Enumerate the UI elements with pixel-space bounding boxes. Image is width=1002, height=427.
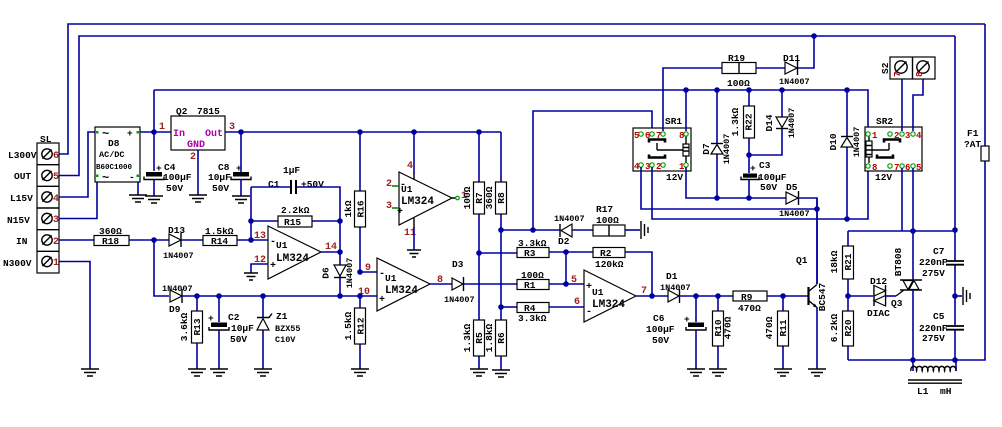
- wire terminal1 down to ground: [59, 262, 90, 370]
- wire pin9: [360, 271, 377, 273]
- wire terminal3 to D8 ac2: [59, 182, 97, 219]
- svg-text:R13: R13: [192, 318, 203, 335]
- node D14 top: [779, 87, 785, 93]
- svg-text:C5: C5: [933, 311, 945, 322]
- diode D9: [162, 284, 193, 315]
- resistor R22: [730, 90, 755, 173]
- svg-text:120kΩ: 120kΩ: [595, 259, 624, 270]
- wire SR1 pin3 run: [652, 167, 868, 219]
- node Z1 top: [260, 293, 266, 299]
- ground under Q1 emitter: [808, 369, 826, 376]
- capacitor C3: [741, 160, 787, 198]
- resistor R4: [517, 303, 584, 325]
- svg-text:GND: GND: [187, 140, 205, 151]
- svg-text:2: 2: [190, 152, 196, 163]
- wire S2 pin7 to SR2 pin3: [901, 79, 903, 131]
- svg-text:OUT: OUT: [14, 171, 31, 182]
- ground under R6: [492, 370, 510, 377]
- diode D14: [749, 90, 797, 155]
- svg-text:R17: R17: [596, 204, 613, 215]
- svg-text:U1: U1: [401, 184, 413, 195]
- svg-text:+: +: [750, 163, 756, 174]
- svg-text:360Ω: 360Ω: [484, 186, 495, 209]
- resistor R10: [713, 296, 734, 369]
- svg-text:1N4007: 1N4007: [345, 258, 355, 289]
- svg-text:6.2kΩ: 6.2kΩ: [829, 313, 840, 342]
- svg-text:4: 4: [634, 162, 640, 172]
- svg-text:3: 3: [386, 201, 392, 212]
- svg-text:C6: C6: [653, 313, 665, 324]
- svg-text:+: +: [208, 313, 214, 324]
- ground under R5: [470, 369, 488, 376]
- svg-text:5: 5: [634, 131, 639, 141]
- svg-text:N300V: N300V: [3, 258, 32, 269]
- ground under C8: [232, 196, 250, 203]
- resistor R14: [203, 226, 268, 247]
- svg-text:R22: R22: [744, 113, 755, 130]
- node C3 bottom: [746, 195, 752, 201]
- svg-text:U1: U1: [385, 273, 397, 284]
- relay supply bus y90: [154, 90, 868, 131]
- wire R4 left: [501, 306, 517, 308]
- wire SR2 pin5 down to triac: [912, 168, 914, 280]
- svg-text:1: 1: [159, 122, 165, 133]
- node R11 top: [780, 293, 786, 299]
- ground under D8: [129, 195, 147, 202]
- resistor R12: [343, 296, 367, 369]
- svg-text:4: 4: [407, 161, 413, 172]
- svg-text:6: 6: [645, 131, 650, 141]
- svg-text:4: 4: [916, 131, 922, 141]
- svg-text:D8: D8: [108, 138, 120, 149]
- connector SL: [3, 134, 59, 273]
- resistor R3: [517, 238, 566, 259]
- ground under R11: [774, 369, 792, 376]
- svg-text:D3: D3: [452, 259, 464, 270]
- node SR1 pin6 riser: [530, 227, 536, 233]
- node R3/R2: [563, 249, 569, 255]
- resistor R20: [829, 296, 854, 360]
- +15V bus from Q2 Out: [225, 131, 501, 133]
- fuse F1: [964, 128, 989, 161]
- svg-text:1kΩ: 1kΩ: [343, 200, 354, 217]
- ground op2 pin11: [407, 250, 421, 257]
- svg-text:R15: R15: [284, 217, 301, 228]
- svg-text:R9: R9: [741, 292, 753, 303]
- resistor R1: [517, 270, 584, 291]
- wire SR1 pin1 to snubber rail: [686, 167, 786, 198]
- svg-text:3: 3: [645, 162, 650, 172]
- svg-text:C7: C7: [933, 246, 945, 257]
- svg-text:1µF: 1µF: [283, 165, 300, 176]
- relay SR1: [633, 116, 691, 183]
- svg-text:100µF: 100µF: [163, 172, 192, 183]
- resistor R9: [733, 291, 808, 314]
- node C7 top: [952, 227, 958, 233]
- svg-text:7: 7: [893, 72, 903, 77]
- wire node to DIAC: [848, 295, 873, 297]
- node C7/C5 midpoint: [952, 293, 958, 299]
- svg-text:+: +: [127, 128, 133, 139]
- node D11 to bus2: [811, 33, 817, 39]
- svg-text:R6: R6: [496, 332, 507, 344]
- svg-text:1N4007: 1N4007: [660, 283, 691, 293]
- ground under C4: [145, 196, 163, 203]
- svg-text:50V: 50V: [230, 334, 247, 345]
- svg-text:12V: 12V: [666, 172, 683, 183]
- diode D13: [163, 225, 203, 261]
- node op1 output: [337, 249, 343, 255]
- svg-text:1N4007: 1N4007: [779, 209, 810, 219]
- svg-text:SR2: SR2: [876, 116, 893, 127]
- node R12 top: [357, 293, 363, 299]
- svg-text:BZX55: BZX55: [275, 324, 301, 334]
- wire C8 leads: [240, 132, 242, 196]
- svg-text:Out: Out: [205, 129, 223, 140]
- wire S2 pin8 to SR2 pin4: [913, 79, 923, 131]
- ground under R12: [351, 369, 369, 376]
- resistor R8: [484, 132, 507, 308]
- wire D13 node down to D9: [154, 240, 169, 296]
- node D7 bottom: [714, 195, 720, 201]
- node D6 bottom on pin10 wire: [337, 293, 343, 299]
- node D8/Q2/C4: [151, 129, 157, 135]
- svg-text:8: 8: [915, 72, 925, 77]
- resistor R5: [462, 253, 485, 369]
- wire D9 to op3 pin10: [182, 295, 377, 297]
- wire op1 output: [321, 251, 340, 253]
- svg-text:5: 5: [916, 163, 921, 173]
- svg-text:R1: R1: [524, 280, 536, 291]
- node SR1 pin8 on bus: [683, 87, 689, 93]
- svg-text:L300V: L300V: [8, 150, 37, 161]
- svg-text:1N4007: 1N4007: [444, 295, 475, 305]
- wire terminal4 to D8 ac1: [59, 132, 95, 197]
- svg-text:1N4007: 1N4007: [852, 127, 862, 158]
- svg-text:R21: R21: [843, 253, 854, 270]
- svg-text:L1: L1: [917, 386, 929, 397]
- svg-text:C10V: C10V: [275, 335, 296, 345]
- wire midpoint to ground: [955, 295, 962, 297]
- svg-text:D6: D6: [321, 267, 332, 279]
- wire hysteresis node to pin5: [565, 252, 567, 284]
- svg-text:2.2kΩ: 2.2kΩ: [281, 205, 310, 216]
- bottom rail: [848, 161, 985, 360]
- capacitor C2: [208, 296, 254, 369]
- node R7 top: [476, 129, 482, 135]
- svg-text:5: 5: [571, 275, 577, 286]
- svg-text:275V: 275V: [922, 333, 945, 344]
- wire SR1 pin8 up to relay bus: [685, 90, 687, 131]
- wire terminal5 to second bus: [59, 36, 955, 176]
- svg-text:mH: mH: [940, 386, 952, 397]
- svg-text:8: 8: [679, 131, 684, 141]
- svg-text:C2: C2: [228, 312, 240, 323]
- node pin13: [248, 237, 254, 243]
- node triac top: [910, 228, 916, 234]
- node R8 to comparator wire: [498, 227, 504, 233]
- svg-text:100Ω: 100Ω: [462, 186, 473, 209]
- svg-text:50V: 50V: [166, 183, 183, 194]
- node D13 branch: [151, 237, 157, 243]
- node pin5: [563, 281, 569, 287]
- resistor R21: [829, 231, 854, 296]
- svg-text:2: 2: [53, 237, 59, 248]
- svg-text:50V: 50V: [652, 335, 669, 346]
- svg-text:7815: 7815: [197, 106, 220, 117]
- svg-text:D7: D7: [701, 143, 712, 155]
- svg-text:R2: R2: [600, 248, 612, 259]
- svg-text:L15V: L15V: [10, 193, 33, 204]
- svg-text:Q1: Q1: [796, 255, 808, 266]
- svg-text:LM324: LM324: [276, 253, 309, 265]
- node op3 pin9: [357, 269, 363, 275]
- ground under Z1: [254, 369, 272, 376]
- node C6 top: [693, 293, 699, 299]
- wire R3 left: [479, 252, 517, 254]
- wire R21 top rail: [848, 230, 955, 232]
- capacitor C5: [919, 311, 964, 360]
- ground under R10: [709, 369, 727, 376]
- diode D1: [660, 271, 733, 303]
- svg-text:LM324: LM324: [401, 196, 434, 208]
- capacitor C4: [144, 162, 192, 194]
- inductor L1: [908, 360, 962, 397]
- node pin4: [411, 129, 417, 135]
- node D14/R22 junction: [746, 152, 752, 158]
- svg-text:1N4007: 1N4007: [787, 108, 797, 139]
- capacitor C1: [268, 165, 324, 194]
- svg-text:1N4007: 1N4007: [722, 134, 732, 165]
- wire R2 left: [566, 251, 593, 253]
- wire D8 minus to ground: [137, 182, 139, 195]
- svg-text:2: 2: [386, 179, 392, 190]
- node R13 top: [194, 293, 200, 299]
- node DIAC drive: [845, 293, 851, 299]
- relay SR2: [865, 116, 922, 183]
- resistor R19: [722, 53, 785, 89]
- node D10 bottom: [844, 216, 850, 222]
- resistor R11: [764, 296, 789, 369]
- wire riser to SR1 pin6: [533, 111, 652, 230]
- wire D8 plus to Q2 In: [140, 131, 171, 133]
- svg-text:6: 6: [53, 151, 59, 162]
- op-amp U1d: [571, 270, 647, 322]
- resistor R13: [179, 296, 203, 369]
- diode D5: [779, 182, 817, 284]
- node C8: [238, 129, 244, 135]
- wire C1 feedback loop: [251, 187, 340, 296]
- ground right of R17: [641, 221, 648, 239]
- ground under N300V wire: [81, 369, 99, 376]
- capacitor C7: [919, 36, 964, 326]
- node R4 left: [498, 304, 504, 310]
- connector S2: [880, 57, 935, 79]
- resistor R15: [251, 205, 340, 228]
- wire op2 pin11 to ground: [413, 227, 415, 250]
- svg-text:9: 9: [365, 263, 371, 274]
- wire SR2 pin6 down: [901, 168, 903, 231]
- svg-text:1N4007: 1N4007: [163, 251, 194, 261]
- svg-text:LM324: LM324: [385, 285, 418, 297]
- ground under Q2: [189, 195, 207, 202]
- svg-text:1.3kΩ: 1.3kΩ: [730, 107, 741, 136]
- node R16 top on +15 bus: [357, 129, 363, 135]
- svg-text:275V: 275V: [922, 268, 945, 279]
- svg-text:1: 1: [679, 162, 685, 172]
- svg-text:AC/DC: AC/DC: [99, 150, 125, 160]
- resistor R16: [343, 132, 367, 272]
- diode D7: [701, 90, 732, 198]
- wire IN terminal to R18: [59, 239, 94, 241]
- resistor R6: [484, 308, 507, 370]
- svg-text:?AT: ?AT: [964, 139, 981, 150]
- triac Q3 BT808: [891, 247, 922, 360]
- svg-text:1: 1: [872, 131, 878, 141]
- svg-text:12V: 12V: [875, 172, 892, 183]
- svg-text:Q2: Q2: [176, 106, 188, 117]
- svg-text:D1: D1: [666, 271, 678, 282]
- node R22 top: [746, 87, 752, 93]
- diode D10: [828, 90, 862, 219]
- diac D12: [867, 276, 896, 319]
- transistor Q1 BC547: [796, 198, 828, 369]
- wire op4 output: [636, 295, 668, 297]
- wire R15 left riser: [250, 187, 252, 240]
- svg-text:470Ω: 470Ω: [723, 316, 734, 339]
- svg-text:U1: U1: [276, 240, 288, 251]
- regulator Q2 7815: [159, 106, 235, 163]
- resistor R17: [593, 204, 640, 236]
- svg-text:IN: IN: [16, 236, 28, 247]
- svg-text:470Ω: 470Ω: [738, 303, 761, 314]
- svg-text:2: 2: [894, 131, 899, 141]
- svg-text:~: ~: [102, 171, 109, 185]
- svg-text:R20: R20: [843, 319, 854, 336]
- svg-text:BC547: BC547: [817, 282, 828, 311]
- ground op1 pin12: [244, 273, 258, 280]
- svg-text:6: 6: [905, 163, 910, 173]
- svg-text:U1: U1: [592, 287, 604, 298]
- svg-text:D14: D14: [764, 114, 775, 131]
- node R10 top: [715, 293, 721, 299]
- ground under C2: [210, 369, 228, 376]
- wire top bus down to fuse F1: [984, 24, 986, 146]
- svg-text:13: 13: [254, 231, 266, 242]
- node R15 right: [337, 218, 343, 224]
- node R7 bottom / R3: [476, 250, 482, 256]
- svg-text:100Ω: 100Ω: [596, 215, 619, 226]
- ground under R13: [188, 369, 206, 376]
- svg-text:18kΩ: 18kΩ: [829, 250, 840, 273]
- svg-text:1.3kΩ: 1.3kΩ: [462, 323, 473, 352]
- svg-text:R3: R3: [524, 248, 536, 259]
- node L1 right: [952, 357, 958, 363]
- svg-text:S2: S2: [880, 62, 891, 74]
- svg-text:D5: D5: [786, 182, 798, 193]
- node R15 left top: [248, 218, 254, 224]
- ground right of C5/C7: [963, 287, 970, 305]
- svg-text:50V: 50V: [760, 182, 777, 193]
- op-amp U1c: [358, 258, 443, 311]
- svg-text:3: 3: [53, 215, 59, 226]
- svg-text:2: 2: [656, 162, 661, 172]
- svg-text:+50V: +50V: [301, 179, 324, 190]
- svg-text:R11: R11: [778, 319, 789, 336]
- svg-text:In: In: [173, 129, 185, 140]
- svg-text:DIAC: DIAC: [867, 308, 890, 319]
- svg-text:R18: R18: [102, 236, 119, 247]
- node D10 top: [844, 87, 850, 93]
- svg-text:F1: F1: [967, 128, 979, 139]
- bridge rectifier D8: [95, 127, 140, 185]
- svg-text:7: 7: [894, 163, 899, 173]
- svg-text:3: 3: [905, 131, 910, 141]
- wire Q2 GND to ground: [197, 150, 199, 195]
- wire terminal6 to top bus: [59, 24, 985, 154]
- svg-text:D10: D10: [828, 133, 839, 150]
- op-amp U1a: [254, 226, 337, 279]
- svg-text:1N4007: 1N4007: [779, 77, 810, 87]
- svg-text:470Ω: 470Ω: [764, 316, 775, 339]
- resistor R2: [593, 248, 652, 297]
- svg-text:1.8kΩ: 1.8kΩ: [484, 323, 495, 352]
- capacitor C8: [208, 162, 251, 194]
- node op4 output: [649, 293, 655, 299]
- svg-text:8: 8: [872, 163, 877, 173]
- svg-text:100Ω: 100Ω: [727, 78, 750, 89]
- wire R8 node to D2: [501, 229, 560, 231]
- diode D6: [321, 258, 356, 289]
- node collector riser: [814, 206, 820, 212]
- svg-text:1N4007: 1N4007: [162, 284, 193, 294]
- svg-text:Z1: Z1: [276, 311, 288, 322]
- svg-text:5: 5: [53, 172, 59, 183]
- diode D3: [444, 259, 517, 305]
- svg-text:1: 1: [53, 258, 59, 269]
- ground under C6: [687, 369, 705, 376]
- svg-text:C3: C3: [759, 160, 771, 171]
- svg-text:1.5kΩ: 1.5kΩ: [343, 311, 354, 340]
- svg-text:220nF: 220nF: [919, 257, 948, 268]
- wire op3 output: [430, 283, 452, 285]
- diode D11: [779, 36, 814, 87]
- svg-text:D12: D12: [870, 276, 887, 287]
- svg-text:1N4007: 1N4007: [554, 214, 585, 224]
- wire unregulated riser to relay bus: [153, 90, 155, 171]
- node D7 top: [714, 87, 720, 93]
- resistor R18: [94, 226, 169, 247]
- svg-text:C1: C1: [268, 179, 280, 190]
- svg-text:Q3: Q3: [891, 298, 903, 309]
- svg-text:50V: 50V: [212, 183, 229, 194]
- svg-text:D2: D2: [558, 236, 570, 247]
- capacitor C6: [646, 296, 706, 369]
- svg-text:R12: R12: [356, 317, 367, 334]
- svg-text:LM324: LM324: [592, 299, 625, 311]
- svg-text:10µF: 10µF: [208, 172, 231, 183]
- svg-text:10µF: 10µF: [231, 323, 254, 334]
- wire C4 to ground: [153, 179, 155, 196]
- svg-text:6: 6: [574, 297, 580, 308]
- svg-text:SR1: SR1: [665, 116, 682, 127]
- svg-text:3.3kΩ: 3.3kΩ: [518, 313, 547, 324]
- svg-text:R8: R8: [496, 192, 507, 204]
- wire op2 pin4 to +15 bus: [413, 132, 415, 174]
- node C2 top: [216, 293, 222, 299]
- op-amp U1b spare: [386, 161, 467, 239]
- wire SR1 pin4 run: [641, 167, 817, 209]
